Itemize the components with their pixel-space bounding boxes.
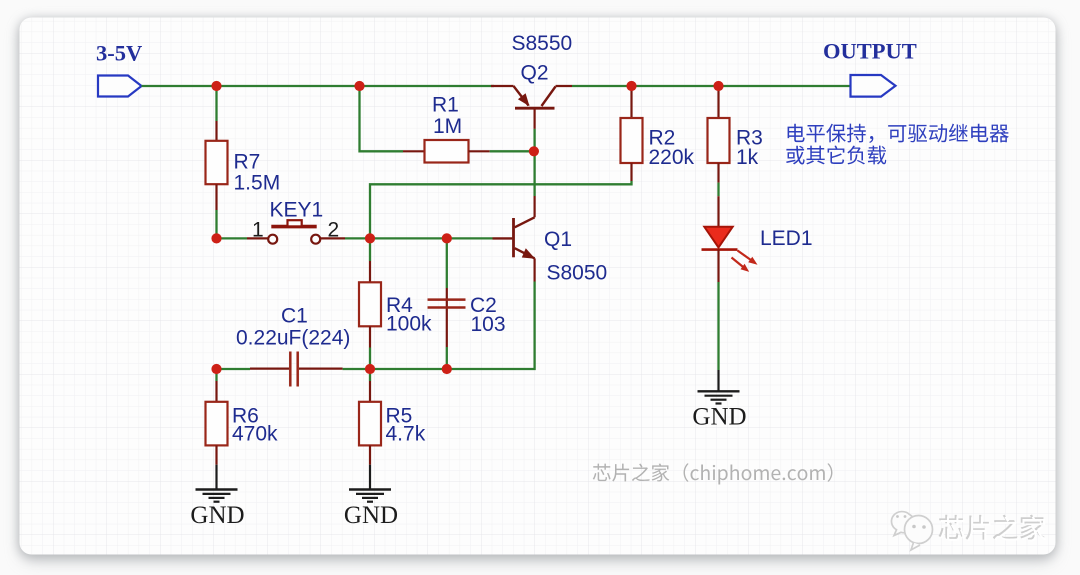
wire — [369, 348, 371, 370]
watermark chiphome.com — [593, 463, 833, 484]
junction — [713, 81, 723, 91]
junction — [626, 81, 636, 91]
junction — [211, 233, 221, 243]
capacitor C1 — [250, 352, 343, 387]
output flag OUTPUT — [851, 75, 896, 97]
transistor Q1 — [493, 196, 536, 282]
svg-text:1: 1 — [252, 219, 264, 242]
svg-text:LED1: LED1 — [760, 227, 813, 250]
wire — [446, 347, 448, 369]
logo watermark — [891, 512, 1046, 550]
svg-text:4.7k: 4.7k — [386, 422, 426, 445]
resistor R5 — [359, 381, 381, 465]
wire — [142, 85, 495, 87]
svg-text:1.5M: 1.5M — [234, 172, 281, 195]
junction — [529, 146, 539, 156]
svg-text:S8050: S8050 — [547, 261, 608, 284]
pushbutton KEY1 — [247, 220, 345, 244]
wire — [360, 86, 404, 151]
svg-text:C1: C1 — [281, 304, 308, 327]
wire — [369, 238, 371, 261]
svg-text:103: 103 — [471, 313, 506, 336]
wire — [369, 369, 371, 381]
wire — [345, 237, 493, 239]
junction — [211, 364, 221, 374]
svg-text:GND: GND — [190, 502, 244, 529]
svg-text:GND: GND — [692, 404, 746, 431]
resistor R2 — [621, 86, 643, 181]
ground — [698, 370, 740, 404]
wire — [217, 237, 248, 239]
svg-text:220k: 220k — [649, 146, 695, 169]
wire — [533, 129, 535, 196]
junction — [442, 233, 452, 243]
resistor R3 — [708, 86, 730, 183]
capacitor C2 — [428, 288, 466, 347]
svg-text:OUTPUT: OUTPUT — [823, 39, 917, 64]
junction — [354, 81, 364, 91]
resistor R1 — [403, 140, 490, 163]
wire — [572, 85, 851, 87]
svg-text:470k: 470k — [232, 422, 278, 445]
svg-text:100k: 100k — [386, 313, 432, 336]
svg-text:3-5V: 3-5V — [96, 41, 142, 66]
annotation text — [788, 124, 1009, 143]
resistor R6 — [206, 381, 228, 465]
resistor R7 — [206, 121, 228, 210]
svg-text:Q2: Q2 — [521, 62, 549, 85]
power flag 3-5V — [98, 76, 142, 97]
wire — [215, 369, 217, 381]
svg-text:GND: GND — [344, 502, 398, 529]
ground — [349, 465, 391, 502]
svg-text:1k: 1k — [736, 146, 759, 169]
resistor R4 — [359, 261, 381, 348]
svg-text:1M: 1M — [433, 115, 462, 138]
wire — [217, 368, 251, 370]
svg-text:KEY1: KEY1 — [270, 199, 324, 222]
wire — [343, 282, 535, 370]
LED LED1 — [702, 196, 758, 282]
svg-text:Q1: Q1 — [544, 228, 572, 251]
svg-text:0.22uF(224): 0.22uF(224) — [236, 326, 350, 349]
junction — [365, 233, 375, 243]
wire — [370, 181, 632, 238]
wire — [215, 86, 217, 121]
ground — [196, 465, 238, 502]
wire — [446, 238, 448, 288]
junction — [211, 81, 221, 91]
wire — [717, 282, 719, 370]
junction — [442, 364, 452, 374]
junction — [365, 364, 375, 374]
wire — [215, 210, 217, 238]
transistor Q2 — [491, 86, 572, 129]
svg-text:S8550: S8550 — [512, 32, 573, 55]
svg-text:R7: R7 — [234, 150, 261, 173]
wire — [490, 150, 535, 152]
svg-text:R1: R1 — [432, 94, 459, 117]
wire — [717, 183, 719, 197]
svg-text:2: 2 — [328, 219, 340, 242]
